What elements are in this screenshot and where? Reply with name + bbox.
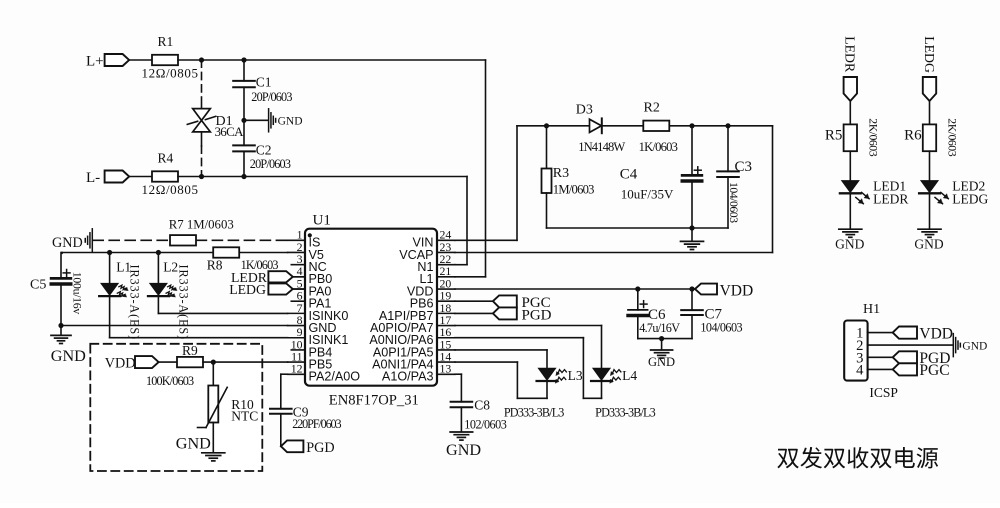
label LED1/LEDR (873, 179, 908, 207)
junction dot C2 bottom (241, 174, 246, 179)
wire pin18 to tag (455, 312, 493, 314)
svg-text:PA2/A0O: PA2/A0O (309, 370, 361, 384)
svg-text:GND: GND (51, 347, 86, 365)
svg-text:PGD: PGD (306, 440, 334, 456)
port L- label (86, 170, 100, 186)
resistor R6 2K (904, 118, 960, 156)
svg-text:L-: L- (86, 170, 100, 186)
wire pin15 to L3 anode (455, 350, 547, 368)
junction dot C6C7 gnd (659, 336, 664, 341)
wire H1 pin4 to PGC (868, 368, 893, 370)
pin 5 PA0 stub+number+name (288, 276, 332, 298)
junction dot D1 bottom (199, 174, 204, 179)
resistor R3 1M (542, 126, 595, 228)
capacitor C3 (717, 126, 752, 228)
junction node C1-C2-GND (241, 118, 246, 123)
svg-text:H1: H1 (863, 302, 880, 317)
pin 4 PB0 stub+number+name (288, 264, 333, 286)
junction dot R9/R10 (211, 360, 216, 365)
capacitor C9 (270, 405, 341, 447)
svg-text:D3: D3 (576, 103, 593, 118)
svg-text:R8: R8 (207, 257, 223, 272)
port VDD label (box) (105, 356, 136, 372)
junction dot L1 top (107, 250, 112, 255)
wire pin19 to tag (455, 300, 493, 302)
svg-text:R6: R6 (904, 128, 922, 144)
diode D3 1N4148W (576, 103, 626, 155)
photodiode L4 (591, 368, 637, 383)
wire pin7 net from L2 (158, 312, 287, 314)
wire VIN pin24 to riser (455, 239, 517, 241)
net label LEDR pin4 (231, 270, 305, 285)
diode D1 36CA bidirectional TVS (187, 60, 244, 177)
wire R9 to pin11 (203, 361, 288, 363)
capacitor C8 (451, 398, 507, 432)
net tag PGD (C9) (281, 440, 335, 456)
svg-text:36CA: 36CA (215, 124, 245, 139)
svg-text:VDD: VDD (919, 326, 953, 343)
ground LEDG chain (914, 229, 943, 251)
ground (rotated) at C1/C2 (269, 109, 303, 132)
pin 22 N1 stub+number+name (417, 252, 455, 274)
pin 7 ISINK0 stub+number+name (288, 301, 349, 323)
svg-text:LEDR: LEDR (843, 36, 858, 73)
svg-text:GND: GND (278, 115, 303, 127)
wire L3 cathode to pin14 (455, 362, 547, 398)
junction dot D1 top (199, 57, 204, 62)
svg-text:220PF/0603: 220PF/0603 (292, 417, 341, 431)
svg-text:R1: R1 (158, 34, 174, 49)
connector H1 box (844, 302, 880, 381)
svg-text:GND: GND (648, 355, 675, 369)
wire VCAP pin23 long (455, 252, 773, 254)
resistor R9 100K (146, 343, 203, 388)
pin 9 ISINK1 stub+number+name (288, 325, 349, 347)
pin 18 A1PI/PB7 stub+number+name (379, 301, 455, 323)
pin 20 VDD stub+number+name (407, 276, 455, 298)
svg-text:C5: C5 (30, 278, 46, 293)
svg-text:C2: C2 (256, 142, 272, 157)
photodiode L3 (537, 368, 583, 383)
svg-text:C4: C4 (620, 166, 638, 182)
capacitor C4 electrolytic (620, 126, 702, 228)
pin1 marker dot (308, 233, 312, 237)
svg-text:1K/0603: 1K/0603 (639, 140, 678, 154)
wire R6 to LED2 (929, 151, 931, 180)
IC U1 body (305, 213, 437, 386)
pin 17 A0PIO/PA7 stub+number+name (370, 313, 455, 335)
svg-text:C8: C8 (474, 398, 490, 413)
svg-text:12: 12 (291, 362, 303, 376)
svg-text:20P/0603: 20P/0603 (251, 90, 292, 104)
junction dot L2 top (156, 250, 161, 255)
svg-text:R5: R5 (825, 128, 843, 144)
junction dot C5 bottom (58, 323, 63, 328)
svg-text:R4: R4 (158, 150, 174, 165)
svg-text:GND: GND (835, 236, 864, 251)
svg-text:LEDG: LEDG (922, 36, 937, 73)
resistor R8 1K (207, 247, 279, 272)
net label LEDG pin5 (229, 282, 305, 297)
wire L4 cathode to pin16 (455, 338, 602, 399)
wire pin13 to C8 (455, 374, 461, 402)
svg-text:LEDG: LEDG (229, 282, 266, 297)
label PD333 L4 (595, 405, 655, 419)
svg-text:GND: GND (914, 236, 943, 251)
H1 pin 3 number (856, 350, 863, 366)
wire pin22 stub (455, 264, 467, 266)
svg-text:R2: R2 (644, 100, 660, 115)
connector tag L- (105, 171, 130, 183)
IC name EN8F17OP_31 (329, 393, 419, 409)
led LED1 (840, 181, 869, 204)
junction dot C7 top (689, 286, 694, 291)
wire H1 pin2 to GND (868, 344, 953, 346)
svg-text:100u/16v: 100u/16v (71, 272, 85, 315)
junction dot rail C3 (725, 123, 730, 128)
svg-text:R9: R9 (182, 343, 198, 358)
pin 15 A0PI1/PA5 stub+number+name (373, 337, 455, 359)
wire H1 pin3 to PGD (868, 356, 893, 358)
resistor R1 (142, 34, 199, 81)
svg-text:A1O/PA3: A1O/PA3 (382, 370, 434, 384)
svg-text:12Ω/0805: 12Ω/0805 (142, 182, 199, 197)
svg-text:104/0603: 104/0603 (727, 182, 741, 223)
pin 24 VIN stub+number+name (413, 228, 456, 250)
wire supply rail (517, 125, 773, 127)
svg-text:GND: GND (962, 340, 987, 352)
led LED2 (919, 181, 948, 204)
capacitor C1 (233, 60, 292, 120)
net tag VDD (695, 282, 753, 299)
capacitor C5 electrolytic (30, 253, 85, 326)
port L+ label (86, 53, 104, 69)
svg-text:104/0603: 104/0603 (700, 320, 742, 334)
svg-text:4: 4 (856, 363, 864, 379)
ground at C5 (51, 326, 86, 366)
svg-text:12Ω/0805: 12Ω/0805 (142, 66, 199, 81)
ground C6/C7 (648, 339, 675, 370)
svg-text:102/0603: 102/0603 (464, 418, 506, 432)
pin 12 PA2/A0O stub+number+name (288, 362, 361, 384)
resistor R7 1M (169, 218, 234, 246)
junction dot C1 top (241, 57, 246, 62)
capacitor C6 electrolytic (628, 289, 680, 339)
junction dot bottom rail (689, 225, 694, 230)
dashed box NTC section (90, 344, 262, 471)
ground at R10 (176, 434, 225, 461)
wire R4 to corner (net N1) (178, 176, 467, 178)
wire rail corner down to VCAP net (772, 126, 774, 253)
ground at C8 (446, 432, 481, 459)
net tag PGD pin18 (493, 307, 552, 323)
label LED2/LEDG (952, 179, 988, 207)
svg-text:C3: C3 (735, 159, 753, 175)
capacitor C7 (681, 289, 742, 339)
connector tag LEDR (top) (844, 77, 857, 101)
svg-text:VDD: VDD (720, 282, 754, 299)
dashed wire GND to R7 (93, 239, 170, 241)
pin 14 A0NI1/PA4 stub+number+name (372, 350, 455, 372)
wire H1 pin1 to VDD (868, 332, 893, 334)
svg-text:2K/0603: 2K/0603 (867, 118, 881, 156)
pin 8 GND stub+number+name (288, 313, 337, 335)
svg-text:20P/0603: 20P/0603 (250, 157, 291, 171)
wire pin2 net (62, 252, 288, 254)
svg-text:PGD: PGD (522, 307, 552, 323)
net label LEDG rotated (922, 36, 937, 73)
wire pin17 to L4 anode (455, 326, 602, 369)
svg-text:2K/0603: 2K/0603 (946, 118, 960, 156)
ground supply (681, 228, 704, 250)
net label LEDR rotated (843, 36, 858, 73)
svg-text:IR333-A(ES): IR333-A(ES) (176, 265, 190, 341)
svg-text:R3: R3 (553, 166, 569, 181)
wire tag to R5 (849, 101, 851, 124)
svg-text:GND: GND (446, 441, 481, 459)
svg-text:GND: GND (176, 434, 211, 452)
svg-text:1N4148W: 1N4148W (578, 140, 625, 154)
wire R1 to corner (net L1) (178, 59, 486, 61)
wire LED1 to ground (849, 194, 851, 229)
wire pin8 GND net (61, 325, 288, 327)
net tag PGC pin19 (493, 295, 551, 311)
resistor R4 (142, 150, 199, 197)
svg-text:13: 13 (440, 362, 452, 376)
wire pin12 to C9 (281, 374, 288, 409)
svg-text:ICSP: ICSP (869, 385, 898, 400)
pin 11 PB5 stub+number+name (288, 350, 333, 372)
ground (rotated) H1 (953, 334, 987, 357)
wire supply bottom rail (547, 227, 729, 229)
connector tag VDD (box) (135, 356, 159, 368)
H1 pin 4 number (856, 363, 864, 379)
net tag PGD (H1) (893, 350, 951, 367)
svg-text:PGC: PGC (919, 362, 949, 379)
pin 3 NC stub+number+name (291, 252, 326, 274)
wire L- to R4 (129, 176, 152, 178)
pin 21 L1 stub+number+name (419, 264, 455, 286)
wire R5 to LED1 (849, 151, 851, 180)
svg-text:4.7u/16V: 4.7u/16V (639, 321, 680, 335)
wire C6-C7 bottom (638, 338, 692, 340)
resistor R5 2K (825, 118, 881, 156)
svg-text:LEDR: LEDR (873, 191, 908, 206)
svg-text:10uF/35V: 10uF/35V (621, 186, 674, 201)
svg-text:PD333-3B/L3: PD333-3B/L3 (504, 405, 564, 419)
pin 16 A0NIO/PA6 stub+number+name (369, 325, 455, 347)
H1 pin 2 number (856, 338, 863, 354)
pin 1 IS stub+number+name (288, 228, 321, 250)
connector tag LEDG (top) (923, 77, 936, 101)
ground LEDR chain (835, 229, 864, 251)
ground (rotated) pin1 net (52, 229, 92, 252)
svg-text:IR333-A(ES): IR333-A(ES) (128, 265, 142, 341)
svg-text:PD333-3B/L3: PD333-3B/L3 (595, 405, 655, 419)
led L1 IR emitter (99, 253, 141, 341)
net tag VDD (H1) (893, 326, 953, 343)
svg-text:L3: L3 (568, 368, 583, 383)
junction dot rail C4 (689, 123, 694, 128)
wire node to ground (244, 119, 268, 121)
svg-text:L4: L4 (622, 368, 637, 383)
pin 2 V5 stub+number+name (288, 240, 324, 262)
svg-text:LEDG: LEDG (952, 191, 988, 206)
svg-text:C1: C1 (256, 75, 272, 90)
pin 23 VCAP stub+number+name (399, 240, 455, 262)
svg-text:L+: L+ (86, 53, 104, 69)
net tag PGC (H1) (893, 362, 950, 379)
junction dot C6 top (635, 286, 640, 291)
led L2 IR emitter (148, 253, 190, 341)
pin 6 PA1 stub+number+name (291, 289, 331, 311)
svg-text:VDD: VDD (105, 356, 136, 372)
label ICSP (869, 385, 898, 400)
svg-text:GND: GND (52, 235, 83, 251)
svg-text:NTC: NTC (231, 408, 258, 423)
dashed wire R7 to pin1 (196, 239, 287, 241)
wire VDD tag to R9 (159, 361, 177, 363)
svg-text:100K/0603: 100K/0603 (146, 374, 194, 388)
svg-text:EN8F17OP_31: EN8F17OP_31 (329, 393, 419, 409)
wire vertical L- down to pin22 (466, 177, 468, 265)
wire tag to R6 (929, 101, 931, 124)
connector tag L+ (105, 54, 130, 66)
svg-text:L2: L2 (163, 259, 178, 274)
wire pin9 net from L1 (110, 337, 288, 339)
svg-text:1M/0603: 1M/0603 (553, 183, 594, 197)
pin 13 A1O/PA3 stub+number+name (382, 362, 455, 384)
capacitor C2 (233, 120, 291, 176)
wire vertical L+ down to pin21 (485, 60, 487, 277)
resistor R2 (639, 100, 678, 154)
svg-text:U1: U1 (313, 213, 331, 229)
svg-text:R7 1M/0603: R7 1M/0603 (169, 218, 234, 232)
pin 10 PB4 stub+number+name (291, 337, 333, 359)
wire pin20 VDD net (455, 288, 695, 290)
junction dot rail R3 (544, 123, 549, 128)
label PD333 L3 (504, 405, 564, 419)
title text 双发双收双电源 (777, 447, 938, 469)
wire LED2 to ground (929, 194, 931, 229)
wire riser to supply rail (516, 126, 518, 241)
H1 pin 1 number (856, 326, 863, 342)
wire pin21 stub to vertical (455, 276, 486, 278)
wire L+ to R1 (129, 59, 152, 61)
thermistor R10 NTC (198, 362, 259, 452)
pin 19 PB6 stub+number+name (410, 289, 455, 311)
